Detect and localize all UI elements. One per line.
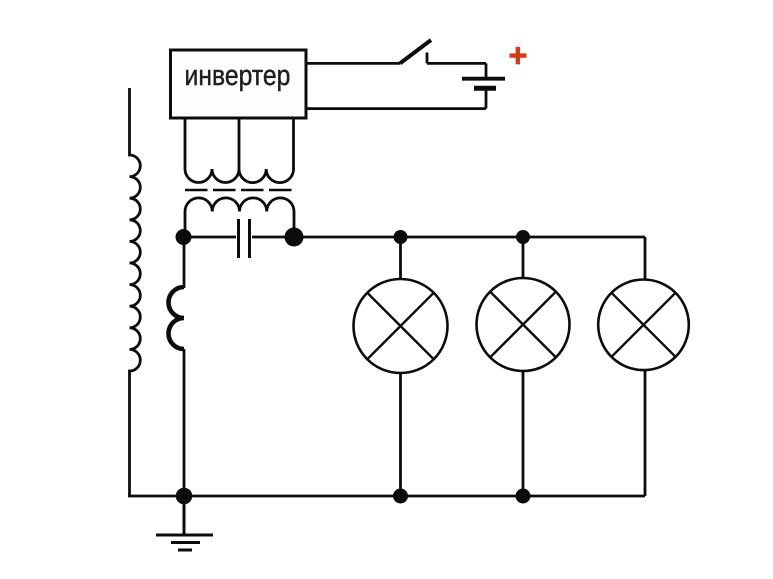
svg-text:инвертер: инвертер xyxy=(185,59,291,91)
